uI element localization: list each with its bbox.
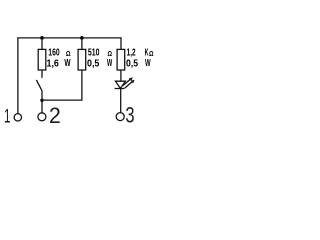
- svg-text:2: 2: [49, 103, 61, 128]
- svg-text:1: 1: [4, 106, 11, 127]
- svg-text:Ω: Ω: [66, 49, 71, 58]
- svg-text:W: W: [107, 58, 113, 69]
- svg-text:Ω: Ω: [108, 49, 113, 58]
- svg-text:W: W: [145, 58, 151, 69]
- svg-text:W: W: [64, 58, 71, 69]
- svg-text:3: 3: [125, 103, 134, 128]
- svg-text:0,5: 0,5: [126, 58, 138, 69]
- svg-text:1,2: 1,2: [127, 48, 136, 59]
- svg-text:1,6: 1,6: [47, 58, 60, 69]
- svg-text:0,5: 0,5: [87, 58, 100, 69]
- svg-text:160: 160: [48, 48, 60, 59]
- svg-text:Ω: Ω: [149, 49, 154, 58]
- svg-text:510: 510: [88, 48, 100, 59]
